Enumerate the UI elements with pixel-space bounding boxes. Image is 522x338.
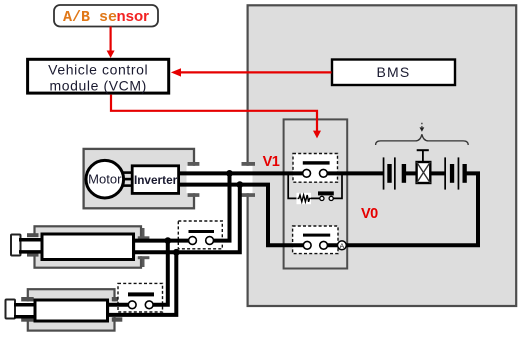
svg-text:A/B se: A/B se <box>63 9 117 26</box>
svg-text:nsor: nsor <box>117 8 150 25</box>
svg-text:V1: V1 <box>263 154 280 170</box>
svg-text:Vehicle control: Vehicle control <box>48 62 148 78</box>
svg-text:Motor: Motor <box>88 172 122 187</box>
svg-text:A: A <box>340 243 345 250</box>
svg-text:BMS: BMS <box>377 64 411 80</box>
svg-text:V0: V0 <box>361 206 378 222</box>
svg-text:Inverter: Inverter <box>134 173 178 187</box>
svg-text:module (VCM): module (VCM) <box>49 77 146 93</box>
